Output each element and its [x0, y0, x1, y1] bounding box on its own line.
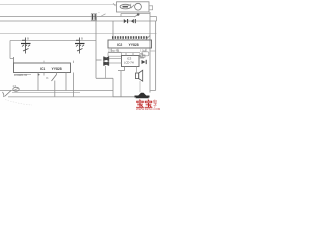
- svg-text:YY828: YY828: [129, 43, 139, 47]
- svg-text:YY828: YY828: [52, 67, 62, 71]
- svg-text:B: B: [27, 37, 29, 41]
- svg-text:IC3: IC3: [127, 57, 132, 61]
- svg-text:LCD-7H: LCD-7H: [124, 61, 134, 65]
- svg-text:4.5: 4.5: [13, 84, 17, 88]
- svg-text:IC2: IC2: [117, 43, 122, 47]
- svg-text:WWW.DZSC.COM: WWW.DZSC.COM: [136, 107, 160, 110]
- svg-text:B: B: [81, 37, 83, 41]
- svg-text:K: K: [47, 76, 49, 80]
- svg-text:IC1: IC1: [40, 67, 45, 71]
- svg-text:~: ~: [98, 11, 100, 15]
- svg-text:1N4WB-7B: 1N4WB-7B: [14, 73, 27, 77]
